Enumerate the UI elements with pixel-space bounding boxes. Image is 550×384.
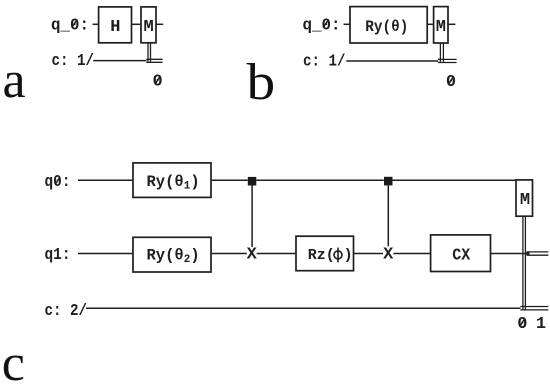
control vertical line 1 (c): [251, 186, 253, 248]
classical double stub (a): [146, 59, 162, 62]
wire q0 segment 2 (c): [211, 179, 248, 181]
svg-text:1: 1: [536, 315, 546, 334]
gate Ry(theta2) (c): [133, 237, 211, 272]
classical wire (a): [93, 60, 146, 62]
control square 2 (c): [384, 177, 393, 186]
wire q1 segment 1 (c): [78, 253, 133, 255]
svg-text:M: M: [436, 18, 446, 37]
label q_0: (circuit a): [51, 17, 89, 36]
gate CX (c): [431, 235, 491, 272]
svg-text:c: c: [2, 335, 25, 384]
wire q1 segment 2 (c): [211, 253, 247, 255]
svg-text:a: a: [3, 52, 26, 109]
classical double stub (b): [438, 59, 457, 62]
wire q1 segment 4 (c): [354, 253, 384, 255]
wire q0 segment 3 (c): [256, 179, 384, 181]
control vertical line 2 (c): [387, 185, 389, 246]
wire right stub (a): [156, 23, 163, 25]
control square 1 (c): [248, 177, 256, 186]
svg-text:q1:: q1:: [45, 246, 71, 265]
svg-text:M: M: [143, 18, 153, 37]
classical wire (b): [346, 60, 438, 62]
wire H to M (a): [132, 23, 142, 25]
gate H (a): [99, 7, 132, 43]
measurement double line down (b): [440, 43, 443, 62]
gate Ry(theta) (b): [350, 7, 427, 43]
svg-text:Ry(θ2): Ry(θ2): [147, 246, 200, 266]
gate Ry(theta1) (c): [133, 163, 211, 198]
wire q1 segment 6 (c): [491, 253, 528, 255]
gate Rz(phi) (c): [296, 236, 354, 271]
svg-text:q_0:: q_0:: [303, 17, 341, 36]
measurement double line down (a): [148, 43, 151, 62]
wire q_0 left stub (a): [93, 23, 99, 25]
svg-text:): ): [344, 247, 353, 264]
classical double stub at q1 level (c): [527, 252, 549, 255]
svg-text:Ry(θ): Ry(θ): [365, 18, 408, 36]
classical wire (c): [86, 307, 520, 309]
svg-text:Ry(θ1): Ry(θ1): [147, 173, 200, 193]
svg-text:c: 1/: c: 1/: [52, 52, 95, 71]
measurement gate M (a): [141, 7, 156, 43]
svg-text:c: 2/: c: 2/: [45, 302, 88, 321]
svg-text:X: X: [247, 246, 258, 265]
label q0: (circuit c): [45, 173, 71, 192]
svg-text:Rz(: Rz(: [308, 247, 335, 264]
wire q1 segment 5 (c): [393, 253, 430, 255]
label q1: (c): [45, 246, 71, 265]
svg-text:0: 0: [152, 72, 162, 91]
measurement gate M (b): [434, 7, 448, 43]
label q_0: (circuit b): [303, 17, 341, 36]
classical stub arrow at q1 junction (c): [524, 251, 530, 255]
svg-text:H: H: [110, 18, 120, 37]
clbit label 0 (b): [446, 73, 456, 92]
svg-text:b: b: [247, 54, 276, 111]
svg-text:q_0:: q_0:: [51, 17, 89, 36]
wire q0 segment 4 (c): [392, 179, 516, 181]
svg-text:0: 0: [517, 315, 527, 334]
clbit labels 0 1 (c): [517, 315, 546, 334]
svg-text:0: 0: [446, 73, 456, 92]
svg-text:c: 1/: c: 1/: [303, 52, 346, 71]
clbit label 0 (a): [152, 72, 162, 91]
svg-text:X: X: [383, 246, 394, 265]
wire q_0 left stub (b): [344, 23, 350, 25]
svg-text:CX: CX: [452, 246, 471, 265]
wire q1 segment 3 (c): [257, 253, 296, 255]
wire right stub (b): [448, 23, 455, 25]
measurement gate M (c): [516, 180, 533, 216]
wire q0 segment 1 (c): [78, 179, 133, 181]
svg-text:M: M: [520, 191, 530, 210]
classical double stub bottom (c): [520, 307, 548, 310]
wire Ry to M (b): [427, 23, 433, 25]
svg-text:q0:: q0:: [45, 173, 71, 192]
measurement double line down (c): [523, 216, 526, 310]
